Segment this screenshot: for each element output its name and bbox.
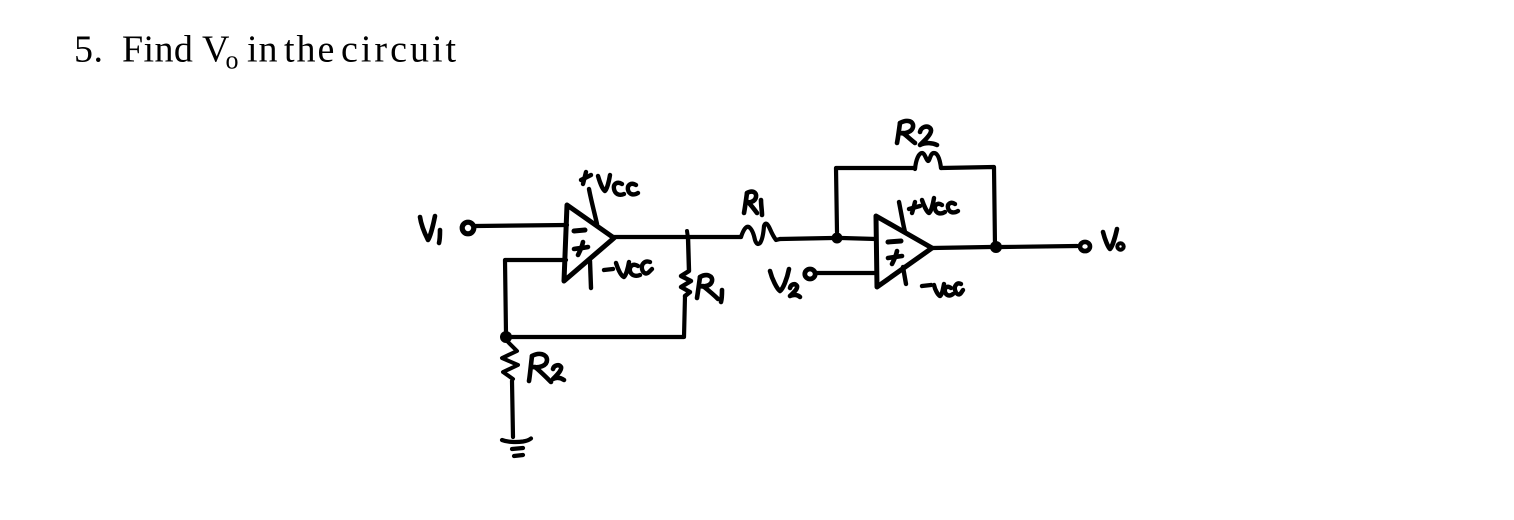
U1 +Vcc pin — [589, 189, 597, 224]
node C junction dot — [990, 241, 1002, 253]
V1 terminal — [462, 222, 474, 234]
R2 label (left) — [529, 354, 564, 382]
svg-text:FindVointhecircuit: FindVointhecircuit — [122, 29, 459, 75]
wire node B to U2 inverting input — [842, 238, 876, 239]
U1 plus sign — [574, 242, 588, 255]
wire R1 to node B — [780, 238, 832, 239]
resistor R1 horizontal squiggle — [741, 224, 780, 244]
wire U1 output — [613, 235, 741, 239]
U2 plus sign — [888, 251, 902, 264]
Vo label — [1103, 229, 1124, 250]
U1 -Vcc pin — [590, 261, 591, 288]
wire U1 noninverting input to node A — [505, 260, 566, 334]
V1 label — [420, 216, 440, 243]
op-amp U2 — [876, 216, 932, 287]
R1 label (vertical) — [697, 275, 722, 302]
resistor R2 feedback squiggle — [915, 153, 941, 169]
op-amp U1 — [564, 205, 614, 281]
Vo terminal — [1080, 242, 1090, 251]
node B junction dot — [832, 233, 843, 244]
U1 -Vcc label — [604, 261, 652, 277]
R1 label (horizontal) — [744, 192, 762, 215]
V2 terminal — [805, 269, 815, 279]
T-junction tick — [687, 231, 688, 238]
wire V1 to U1 inverting input — [476, 225, 567, 226]
bottom feedback wire node A to vertical R1 — [506, 296, 685, 337]
resistor R1 vertical zigzag — [681, 237, 691, 296]
feedback wire down to node C — [941, 167, 995, 247]
U2 minus sign — [888, 241, 901, 242]
wire V2 to U2 noninverting input — [817, 271, 876, 275]
U2 +Vcc label — [909, 198, 958, 213]
wire node C to Vo terminal — [1002, 246, 1077, 247]
R2 label (feedback) — [897, 121, 937, 145]
feedback wire node B up and across — [836, 168, 915, 232]
wire U2 output to node C — [932, 247, 990, 248]
U2 -Vcc pin — [903, 267, 906, 284]
U1 minus sign — [574, 230, 585, 231]
title text: 5. Find Vo in the circuit — [74, 29, 459, 75]
resistor R2 left zigzag — [502, 342, 518, 379]
svg-text:5.: 5. — [74, 29, 104, 71]
node A junction dot — [500, 331, 512, 343]
wire R2 to ground — [512, 381, 513, 437]
U2 +Vcc pin — [899, 202, 905, 232]
U1 +Vcc label — [581, 172, 638, 195]
ground — [502, 439, 531, 457]
V2 label — [770, 269, 800, 297]
U2 -Vcc label — [922, 283, 963, 296]
